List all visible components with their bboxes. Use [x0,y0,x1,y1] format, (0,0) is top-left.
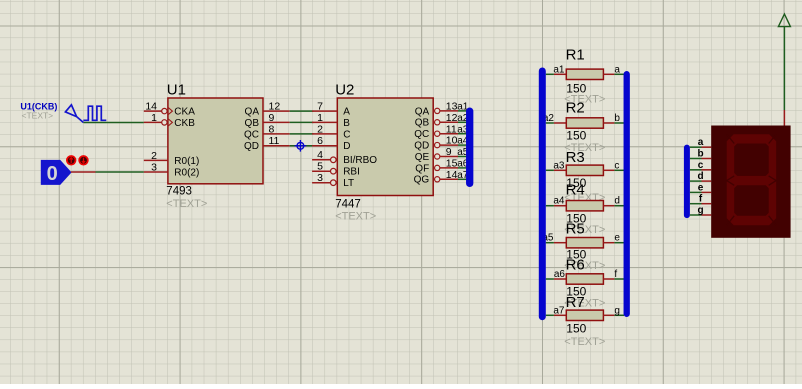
wire bus to display pin g [690,214,711,216]
svg-text:2: 2 [151,150,157,162]
bus segment at display [684,148,690,216]
net label a4 left of R4 [553,196,565,207]
wire U2 QF to bus [458,167,468,169]
svg-text:5: 5 [317,161,323,173]
svg-text:QG: QG [414,175,430,186]
svg-text:150: 150 [566,129,586,143]
svg-text:c: c [698,160,704,171]
U1 pin 1 CKB [144,112,195,129]
U2 pin 11 QC [414,123,458,140]
net label a2 at bus [457,113,469,124]
R3 value 150 [566,176,586,190]
wire R6 to bus [614,278,624,280]
display pin label f [699,194,703,205]
logic toggle down arrow marker [79,156,88,165]
net label f right of R6 [614,269,617,280]
net label e right of R5 [614,233,620,244]
net label a6 at bus [457,159,469,170]
R2 <TEXT> placeholder [564,142,605,154]
svg-text:6: 6 [317,135,323,147]
svg-text:C: C [343,129,350,140]
svg-text:R6: R6 [566,257,585,274]
svg-text:R4: R4 [566,181,585,198]
U1 pin 14 CKA [144,101,195,118]
svg-text:12: 12 [269,101,281,113]
svg-text:d: d [614,196,620,207]
display pin label b [697,149,703,160]
wire R2 to bus [614,122,624,124]
wire bus to display pin e [690,191,711,193]
wire clock to U1 CKB [83,122,143,124]
svg-text:CKB: CKB [174,118,195,129]
svg-text:QC: QC [414,129,429,140]
svg-text:1: 1 [151,112,157,124]
svg-text:R7: R7 [566,294,585,311]
generator label U1(CKB) [20,101,57,111]
display pin label g [697,205,703,216]
svg-text:14: 14 [145,101,157,113]
R7 reference label [566,294,585,311]
R1 <TEXT> placeholder [564,93,605,105]
wire R5 to bus [614,242,624,244]
U2 pin 7 A [312,101,350,118]
U1 pin 3 R0(2) [144,161,200,178]
R4 reference label [566,181,585,198]
wire R7 to bus [614,314,624,316]
svg-text:QD: QD [414,141,429,152]
svg-text:b: b [697,149,703,160]
generator U1(CKB) clock source [65,105,106,123]
svg-text:a4: a4 [553,196,565,207]
U1 pin 12 QA [245,101,290,118]
svg-text:a: a [614,64,620,75]
wire R3 to bus [614,169,624,171]
svg-text:12: 12 [446,112,458,124]
svg-text:QF: QF [415,163,429,174]
net label a4 at bus [457,136,469,147]
R1 value 150 [566,82,586,96]
power symbol [778,14,790,27]
wire bus to R4 [546,205,554,207]
U1 pin 8 QC [244,123,290,140]
IC U1 7493 body [168,98,263,184]
svg-text:R0(2): R0(2) [174,167,199,178]
R3 <TEXT> placeholder [564,192,605,204]
svg-text:11: 11 [269,135,280,147]
net label a right of R1 [614,64,620,75]
wire U1 QC to U2 C [290,133,314,135]
svg-text:a: a [698,137,704,148]
resistor R4 [554,201,615,211]
net label a5 left of R5 [542,233,554,244]
svg-text:1: 1 [317,112,323,124]
R7 <TEXT> placeholder [564,336,605,348]
resistor R1 [554,69,615,79]
R6 value 150 [566,285,586,299]
svg-text:g: g [614,305,620,316]
wire U2 QC to bus [458,133,468,135]
U2 pin 6 D [312,135,350,152]
wire logic state to R0(2) [71,171,144,173]
svg-text:2: 2 [317,123,323,135]
U1 pin 2 R0(1) [144,150,200,167]
svg-text:9: 9 [269,112,275,124]
wire U2 QE to bus [458,156,468,158]
wire bus to R5 [546,242,554,244]
svg-text:a6: a6 [554,269,566,280]
svg-text:U1: U1 [167,82,186,99]
wire U1 QD to U2 D [290,145,314,147]
svg-text:4: 4 [317,149,323,161]
svg-text:11: 11 [446,123,457,135]
svg-text:e: e [698,182,704,193]
svg-text:R0(1): R0(1) [174,156,199,167]
svg-text:<TEXT>: <TEXT> [335,210,376,222]
svg-text:9: 9 [446,146,452,158]
svg-text:g: g [697,205,703,216]
svg-text:a7: a7 [553,305,565,316]
wire U1 QA to U2 A [290,110,314,112]
svg-text:d: d [697,171,703,182]
R5 <TEXT> placeholder [564,260,605,272]
wire bus to R2 [546,122,554,124]
U2 pin 1 B [312,112,350,129]
wire bus to R6 [546,278,554,280]
svg-text:3: 3 [151,161,157,173]
svg-text:a3: a3 [553,160,565,171]
U2 pin 13 QA [415,101,458,118]
net label d right of R4 [614,196,620,207]
logic toggle up arrow marker [67,156,76,165]
wire U2 QD to bus [458,144,468,146]
U2 pin 3 LT [312,172,354,189]
wire bus to display pin a [690,146,711,148]
U2 pin 5 RBI [312,161,360,178]
wire bus to R7 [546,314,554,316]
svg-text:f: f [614,269,617,280]
R2 value 150 [566,129,586,143]
wire U1 QB to U2 B [290,121,314,123]
wire R1 to bus [614,73,624,75]
svg-text:7493: 7493 [166,185,192,197]
logic state 0 source [41,160,71,185]
svg-text:13: 13 [446,101,458,113]
U2 pin 12 QB [415,112,458,129]
7-segment digit segments [727,134,777,225]
net label a1 left of R1 [553,64,565,75]
resistor R5 [554,238,615,248]
wire power to display common [783,27,785,126]
generator <TEXT> placeholder [22,110,54,120]
U2 <TEXT> placeholder [335,210,376,222]
svg-text:CKA: CKA [174,107,195,118]
U1 pin 11 QD [244,135,290,152]
wire bus to display pin c [690,169,711,171]
R5 reference label [566,220,585,237]
svg-text:<TEXT>: <TEXT> [166,198,207,210]
svg-text:D: D [343,141,350,152]
R7 value 150 [566,322,586,336]
U2 pin 2 C [312,123,350,140]
svg-text:10: 10 [446,135,458,147]
net label g right of R7 [614,305,620,316]
svg-text:R5: R5 [566,220,585,237]
svg-text:QB: QB [415,118,430,129]
U2 pin 15 QF [415,158,458,175]
7-segment display body [711,126,790,238]
resistor R3 [554,165,615,175]
svg-text:14: 14 [446,169,458,181]
R2 reference label [566,99,585,116]
svg-text:R1: R1 [566,47,585,64]
U2 reference label [335,82,354,99]
svg-text:QB: QB [245,118,260,129]
U2 pin 14 QG [414,169,458,186]
IC U2 7447 body [337,98,433,196]
wire R4 to bus [614,205,624,207]
R3 reference label [566,149,585,166]
svg-text:B: B [343,118,350,129]
bus segment left of resistors [539,71,546,317]
bus segment right of resistors [624,74,630,314]
net label c right of R3 [614,160,619,171]
U1 value 7493 [166,185,192,197]
svg-text:U2: U2 [335,82,354,99]
display pin label a [698,137,704,148]
wire U2 QA to bus [458,110,468,112]
U1 <TEXT> placeholder [166,198,207,210]
display pin label d [697,171,703,182]
U1 pin 9 QB [245,112,290,129]
svg-text:LT: LT [343,178,354,189]
svg-text:QC: QC [244,129,259,140]
svg-text:150: 150 [566,322,586,336]
wire bus to R1 [546,73,554,75]
wire bus to display pin f [690,203,711,205]
net label a2 left of R2 [543,113,555,124]
svg-text:RBI: RBI [343,167,360,178]
svg-text:QE: QE [415,152,430,163]
net label b right of R2 [614,113,620,124]
node marker on QD wire [295,140,307,152]
U2 pin 4 BI/RBO [312,149,377,166]
resistor R2 [554,118,615,128]
R1 reference label [566,47,585,64]
U2 value 7447 [335,198,361,210]
svg-text:0: 0 [47,163,58,185]
svg-text:b: b [614,113,620,124]
resistor R7 [554,310,615,320]
display pin label c [698,160,704,171]
net label a7 at bus [457,170,469,181]
net label a1 at bus [457,102,469,113]
svg-text:a1: a1 [553,64,565,75]
svg-text:R2: R2 [566,99,585,116]
R4 <TEXT> placeholder [564,224,605,236]
svg-text:<TEXT>: <TEXT> [564,336,605,348]
svg-text:3: 3 [317,172,323,184]
svg-text:R3: R3 [566,149,585,166]
net label a7 left of R7 [553,305,565,316]
wire bus to R3 [546,169,554,171]
svg-text:e: e [614,233,620,244]
R5 value 150 [566,248,586,262]
wire U2 QB to bus [458,121,468,123]
net label a5 at bus [457,147,469,158]
svg-text:15: 15 [446,158,458,170]
svg-text:c: c [614,160,619,171]
svg-text:QA: QA [415,106,430,117]
svg-text:A: A [343,107,350,118]
svg-text:QA: QA [245,107,260,118]
resistor R6 [554,274,615,284]
R6 reference label [566,257,585,274]
U1 reference label [167,82,186,99]
display pin label e [698,182,704,193]
svg-text:7: 7 [317,101,323,113]
bus segment from U2 outputs [466,111,473,183]
R6 <TEXT> placeholder [564,297,605,309]
wire bus to display pin b [690,158,711,160]
wire U2 QG to bus [458,178,468,180]
svg-text:7447: 7447 [335,198,361,210]
wire bus to display pin d [690,180,711,182]
svg-text:BI/RBO: BI/RBO [343,155,377,166]
net label a3 left of R3 [553,160,565,171]
svg-text:<TEXT>: <TEXT> [22,110,54,120]
R4 value 150 [566,212,586,226]
U2 pin 10 QD [414,135,458,152]
svg-text:8: 8 [269,123,275,135]
net label a6 left of R6 [554,269,566,280]
U2 pin 9 QE [415,146,458,163]
net label a3 at bus [457,124,469,135]
svg-text:QD: QD [244,141,259,152]
